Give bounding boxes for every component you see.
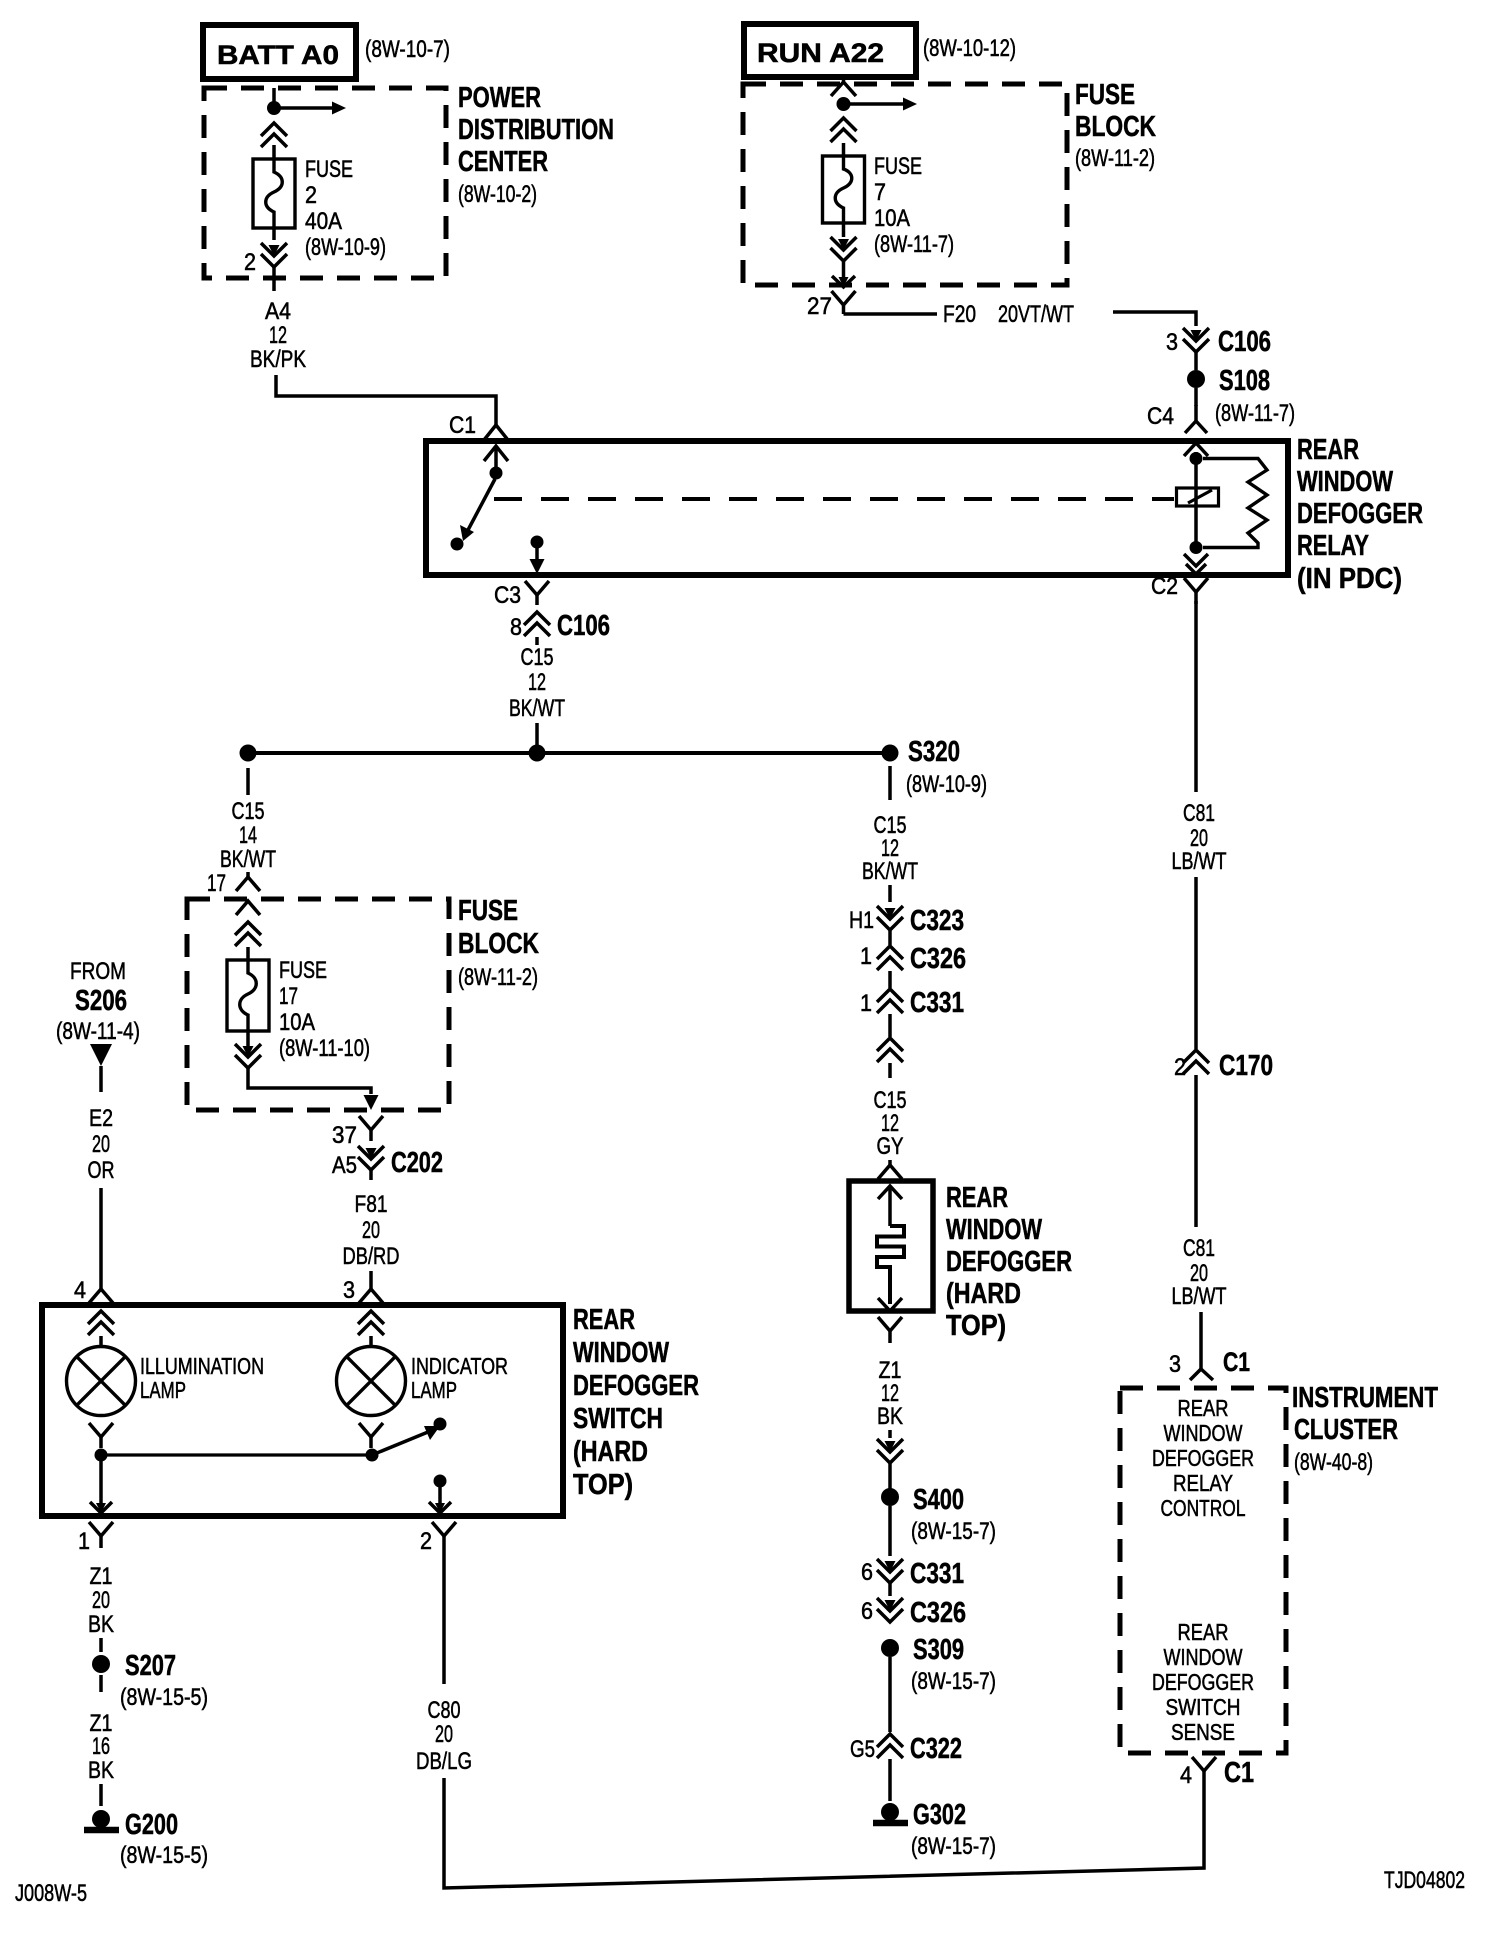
fuse 7 10A xyxy=(823,156,865,223)
svg-text:G302: G302 xyxy=(913,1799,966,1831)
fuse block dashed box (left) xyxy=(187,899,449,1110)
svg-text:2: 2 xyxy=(1174,1054,1186,1081)
splice S108 xyxy=(1187,370,1205,388)
connector chevrons unlabeled (up) xyxy=(877,1038,903,1051)
svg-text:S400: S400 xyxy=(913,1484,964,1516)
svg-text:40A: 40A xyxy=(305,208,342,235)
svg-text:C326: C326 xyxy=(910,943,966,975)
svg-text:RUN A22: RUN A22 xyxy=(757,38,884,68)
svg-text:ILLUMINATION: ILLUMINATION xyxy=(140,1353,264,1379)
svg-text:3: 3 xyxy=(1166,329,1178,356)
svg-text:FUSE: FUSE xyxy=(458,895,518,927)
connector arrow at defogger bottom xyxy=(878,1298,902,1311)
instrument cluster dashed box xyxy=(1120,1388,1286,1753)
wire pin 1 to border xyxy=(99,1461,103,1509)
svg-text:S108: S108 xyxy=(1219,365,1270,397)
svg-text:REAR: REAR xyxy=(1178,1619,1229,1645)
svg-text:C331: C331 xyxy=(910,987,964,1019)
wire C1 to switch common xyxy=(494,448,498,468)
node illumination lamp return dot xyxy=(95,1449,108,1462)
svg-text:DISTRIBUTION: DISTRIBUTION xyxy=(458,114,614,146)
svg-text:20VT/WT: 20VT/WT xyxy=(998,301,1074,328)
svg-text:LB/WT: LB/WT xyxy=(1172,1283,1227,1310)
resistor across relay coil xyxy=(1203,459,1267,548)
svg-text:(8W-10-2): (8W-10-2) xyxy=(458,181,537,208)
connector V arrow at fuse block border xyxy=(839,277,849,287)
wire C202 to F81 label xyxy=(369,1170,373,1180)
wire fuse 7 output xyxy=(842,223,846,237)
svg-text:(8W-11-7): (8W-11-7) xyxy=(874,231,954,258)
svg-text:6: 6 xyxy=(861,1559,873,1586)
connector C322 chevrons (up) xyxy=(877,1734,903,1747)
wire C2 to C81 label xyxy=(1194,601,1198,792)
svg-text:SENSE: SENSE xyxy=(1171,1719,1235,1745)
svg-text:7: 7 xyxy=(874,179,886,206)
svg-text:G200: G200 xyxy=(125,1809,178,1841)
node switch output upper dot xyxy=(434,1418,447,1431)
svg-text:(8W-15-7): (8W-15-7) xyxy=(911,1518,996,1545)
node relay switch common dot xyxy=(490,467,503,480)
connector half chevron pin 3 into switch xyxy=(369,1284,373,1289)
label REAR WINDOW DEFOGGER (HARD TOP) xyxy=(946,1182,1072,1342)
wire label C80 20 DB/LG xyxy=(416,1697,472,1775)
svg-text:TOP): TOP) xyxy=(946,1310,1006,1342)
wire arrow from S206 xyxy=(90,1044,112,1066)
svg-text:DEFOGGER: DEFOGGER xyxy=(1152,1445,1254,1471)
svg-text:RELAY: RELAY xyxy=(1297,530,1369,562)
svg-text:TJD04802: TJD04802 xyxy=(1384,1867,1465,1894)
ground G200 xyxy=(92,1810,110,1828)
label REAR WINDOW DEFOGGER RELAY (IN PDC) xyxy=(1297,434,1423,595)
svg-text:A4: A4 xyxy=(265,298,291,325)
node relay coil bottom dot xyxy=(1190,541,1203,554)
wire label C15 14 BK/WT xyxy=(220,798,276,873)
wire label Z1 12 BK xyxy=(877,1357,903,1430)
svg-text:C1: C1 xyxy=(1224,1757,1254,1789)
node relay output dot (C3) xyxy=(531,536,544,549)
wire S108 to relay C4 xyxy=(1194,388,1198,406)
svg-text:S320: S320 xyxy=(908,736,960,768)
label REAR WINDOW DEFOGGER RELAY CONTROL xyxy=(1152,1395,1254,1521)
label FUSE 7 10A (8W-11-7) xyxy=(874,153,954,258)
svg-text:C80: C80 xyxy=(428,1697,461,1724)
connector half chevron below fuse block (37) xyxy=(359,1116,371,1130)
heater REAR WINDOW DEFOGGER (HARD TOP) box xyxy=(849,1181,933,1311)
label FUSE 2 40A (8W-10-9) xyxy=(305,156,386,261)
wire bus arrow right xyxy=(844,102,904,106)
svg-text:(8W-40-8): (8W-40-8) xyxy=(1294,1449,1373,1476)
svg-text:(HARD: (HARD xyxy=(946,1278,1021,1310)
ground G302 xyxy=(881,1803,899,1821)
connector chevrons fuse block exit (down) xyxy=(838,239,849,250)
wire stub to S207 xyxy=(99,1638,103,1652)
svg-text:1: 1 xyxy=(860,990,872,1017)
wire to C15 GY label xyxy=(888,1063,892,1078)
label REAR WINDOW DEFOGGER SWITCH (HARD TOP) xyxy=(573,1304,699,1501)
svg-text:C4: C4 xyxy=(1147,403,1174,430)
svg-text:C81: C81 xyxy=(1183,800,1215,827)
svg-text:C202: C202 xyxy=(391,1147,443,1179)
connector chevrons pin 4 inside switch (up) xyxy=(88,1311,114,1324)
wire S400 down xyxy=(888,1506,892,1556)
svg-text:DB/RD: DB/RD xyxy=(343,1243,400,1270)
svg-text:BK: BK xyxy=(88,1757,114,1784)
svg-text:LB/WT: LB/WT xyxy=(1172,848,1227,875)
wire to fuse 7 xyxy=(842,143,846,156)
svg-text:3: 3 xyxy=(1169,1351,1181,1378)
connector C106 chevrons (down) xyxy=(1191,330,1202,341)
fuse block dashed box (top) xyxy=(743,84,1067,285)
connector chevrons pin 3 inside switch (up) xyxy=(358,1311,384,1324)
relay coil box xyxy=(1177,488,1219,506)
wire label C81 20 LB/WT (upper) xyxy=(1172,800,1227,875)
svg-text:C3: C3 xyxy=(494,582,521,609)
defogger grid element meander xyxy=(877,1226,904,1304)
node switch pole dot xyxy=(366,1449,379,1462)
svg-text:C323: C323 xyxy=(910,905,964,937)
wire C80 upper xyxy=(442,1548,446,1684)
node bus dot in PDC xyxy=(267,101,281,115)
wire label C81 20 LB/WT (lower) xyxy=(1172,1235,1227,1310)
connector C202 chevrons (down) xyxy=(366,1148,377,1159)
svg-text:CLUSTER: CLUSTER xyxy=(1294,1414,1398,1446)
splice S309 xyxy=(881,1639,899,1657)
svg-text:INDICATOR: INDICATOR xyxy=(411,1353,508,1379)
node splice dot left xyxy=(240,745,257,762)
svg-text:(8W-11-10): (8W-11-10) xyxy=(279,1035,370,1062)
svg-text:WINDOW: WINDOW xyxy=(1164,1644,1243,1670)
label POWER DISTRIBUTION CENTER (8W-10-2) xyxy=(458,82,614,208)
svg-text:(8W-10-9): (8W-10-9) xyxy=(305,234,386,261)
svg-text:J008W-5: J008W-5 xyxy=(15,1880,87,1907)
connector half chevron into fuse block 2 xyxy=(246,872,250,877)
wire label C15 12 BK/WT (from relay) xyxy=(509,644,565,722)
wire C331 down xyxy=(888,1014,892,1037)
node RUN A22 feed box xyxy=(744,24,916,77)
connector half chevron C1 into relay xyxy=(494,421,498,425)
svg-text:(8W-15-7): (8W-15-7) xyxy=(911,1833,996,1860)
wire relay output arrow to C3 xyxy=(535,546,539,560)
node FROM S206 reference xyxy=(56,958,140,1045)
svg-text:CONTROL: CONTROL xyxy=(1161,1495,1246,1521)
label FUSE BLOCK (8W-11-2) left xyxy=(458,895,539,991)
wire C106 to label C15 xyxy=(535,637,539,645)
node relay coil top dot xyxy=(1190,452,1203,465)
connector C106 chevrons (up) on C15 wire xyxy=(524,612,550,625)
label REAR WINDOW DEFOGGER SWITCH SENSE xyxy=(1152,1619,1254,1745)
wire F20 horizontal segment 1 xyxy=(844,312,938,316)
svg-text:DEFOGGER: DEFOGGER xyxy=(573,1370,699,1402)
svg-text:Z1: Z1 xyxy=(90,1563,113,1590)
svg-text:16: 16 xyxy=(92,1733,110,1760)
svg-text:TOP): TOP) xyxy=(573,1469,633,1501)
wire bus arrow right xyxy=(274,106,332,110)
wire F20 horizontal segment 2 xyxy=(1113,312,1196,326)
connector chevron inside relay at C1 xyxy=(484,446,508,461)
svg-text:C331: C331 xyxy=(910,1558,964,1590)
wire splice bus horizontal xyxy=(248,751,890,755)
wire stub below S207 xyxy=(99,1675,103,1692)
label FUSE BLOCK (8W-11-2) xyxy=(1075,79,1156,172)
svg-text:OR: OR xyxy=(88,1157,115,1184)
connector chevrons fuse 17 exit (down) xyxy=(243,1046,254,1057)
wire C80 lower and bottom run xyxy=(444,1778,1204,1888)
svg-text:S309: S309 xyxy=(913,1634,964,1666)
wire PDC exit stub xyxy=(272,266,276,291)
connector chevrons (up) to fuse 7 xyxy=(831,118,857,131)
connector half chevron pin 1 below switch xyxy=(89,1522,101,1536)
connector chevrons in PDC (up) xyxy=(261,123,287,136)
svg-text:FUSE: FUSE xyxy=(874,153,922,180)
svg-text:E2: E2 xyxy=(89,1105,113,1132)
svg-text:C322: C322 xyxy=(910,1733,962,1765)
wire label F81 20 DB/RD xyxy=(343,1191,400,1270)
wire F81 to switch pin 3 xyxy=(369,1271,373,1284)
wire S309 down xyxy=(888,1657,892,1732)
connector C170 chevrons (up) xyxy=(1183,1050,1209,1063)
svg-text:BK: BK xyxy=(877,1403,903,1430)
relay switch arm (movable contact) xyxy=(468,479,495,530)
wire to fuse 2 xyxy=(272,145,276,159)
svg-text:DB/LG: DB/LG xyxy=(416,1748,472,1775)
svg-text:FROM: FROM xyxy=(70,958,126,985)
svg-text:12: 12 xyxy=(528,669,546,696)
svg-text:(8W-10-12): (8W-10-12) xyxy=(923,35,1016,62)
svg-text:WINDOW: WINDOW xyxy=(573,1337,669,1369)
svg-text:CENTER: CENTER xyxy=(458,146,548,178)
fuse 2 40A xyxy=(253,159,295,228)
svg-text:2: 2 xyxy=(244,249,256,276)
wire to chevron xyxy=(888,1430,892,1438)
wire label A4 12 BK/PK xyxy=(250,298,306,373)
label INSTRUMENT CLUSTER (8W-40-8) xyxy=(1292,1382,1438,1476)
svg-text:S206: S206 xyxy=(75,985,127,1017)
svg-text:(8W-11-2): (8W-11-2) xyxy=(1075,145,1155,172)
svg-text:GY: GY xyxy=(877,1133,904,1160)
connector half chevron pin 2 below switch xyxy=(432,1522,444,1536)
svg-text:BK/PK: BK/PK xyxy=(250,346,306,373)
svg-text:17: 17 xyxy=(207,870,226,897)
connector half chevron C2 below relay xyxy=(1184,578,1196,592)
connector C331 chevrons (down) xyxy=(885,1561,896,1572)
switch arm to output xyxy=(372,1432,428,1455)
fuse 17 10A xyxy=(227,960,269,1031)
svg-text:(8W-15-7): (8W-15-7) xyxy=(911,1668,996,1695)
svg-text:BLOCK: BLOCK xyxy=(1075,111,1156,143)
svg-text:(8W-10-7): (8W-10-7) xyxy=(365,36,450,63)
wire into grid element xyxy=(888,1188,892,1226)
svg-text:SWITCH: SWITCH xyxy=(573,1403,663,1435)
wire BATT feed into PDC xyxy=(272,88,276,104)
wire pin 4 to illumination lamp xyxy=(99,1336,103,1347)
svg-text:C106: C106 xyxy=(557,610,610,642)
connector chevron at fuse block border xyxy=(236,901,260,915)
svg-text:F81: F81 xyxy=(355,1191,388,1218)
wire to fuse 17 xyxy=(246,947,250,960)
connector C323 chevrons (down) xyxy=(885,908,896,919)
lamp illumination xyxy=(67,1347,136,1416)
svg-text:20: 20 xyxy=(92,1131,110,1158)
svg-text:C15: C15 xyxy=(232,798,265,825)
svg-text:A5: A5 xyxy=(332,1152,357,1179)
svg-text:REAR: REAR xyxy=(1297,434,1359,466)
svg-text:(IN PDC): (IN PDC) xyxy=(1297,563,1402,595)
wire to S400 xyxy=(888,1463,892,1489)
relay REAR WINDOW DEFOGGER RELAY (IN PDC) box xyxy=(426,441,1288,575)
svg-text:17: 17 xyxy=(279,983,298,1010)
wire to S108 xyxy=(1194,352,1198,370)
svg-text:20: 20 xyxy=(435,1721,453,1748)
wire A4 run to relay C1 xyxy=(276,375,496,421)
svg-text:37: 37 xyxy=(332,1122,357,1149)
wire C15 down to splice bus xyxy=(535,723,539,753)
connector chevron inside defogger (up) xyxy=(878,1186,902,1199)
connector half chevron below illumination lamp xyxy=(89,1423,101,1437)
wire label E2 20 OR xyxy=(88,1105,115,1184)
wire label C15 12 GY xyxy=(874,1087,907,1160)
wire lamp return bus xyxy=(101,1453,372,1456)
svg-text:10A: 10A xyxy=(874,205,910,232)
svg-text:S207: S207 xyxy=(125,1650,176,1682)
svg-text:(8W-11-2): (8W-11-2) xyxy=(458,964,538,991)
node splice dot middle xyxy=(529,745,546,762)
svg-text:DEFOGGER: DEFOGGER xyxy=(946,1246,1072,1278)
wire C326-C331 xyxy=(888,971,892,988)
connector C331 chevrons (up) xyxy=(877,989,903,1002)
svg-text:DEFOGGER: DEFOGGER xyxy=(1297,498,1423,530)
wire switch output to pin 2 xyxy=(438,1487,442,1509)
wire coil vertical xyxy=(1194,452,1198,548)
connector half chevron C3 below relay xyxy=(525,581,537,595)
svg-text:BK/WT: BK/WT xyxy=(862,858,918,885)
lamp indicator xyxy=(337,1347,406,1416)
connector C326 chevrons (up) xyxy=(877,946,903,959)
svg-text:4: 4 xyxy=(1180,1762,1192,1789)
splice S207 xyxy=(92,1655,110,1673)
svg-text:2: 2 xyxy=(305,182,317,209)
connector half chevron below indicator lamp xyxy=(359,1423,371,1437)
connector C1 into cluster (half chevron) xyxy=(1199,1312,1203,1369)
wire to G302 xyxy=(888,1759,892,1801)
splice S320 dot xyxy=(882,745,899,762)
svg-text:REAR: REAR xyxy=(946,1182,1008,1214)
svg-text:C1: C1 xyxy=(1223,1347,1250,1377)
svg-text:27: 27 xyxy=(807,293,832,320)
svg-text:C81: C81 xyxy=(1183,1235,1215,1262)
connector half chevron C1 below cluster xyxy=(1192,1757,1204,1771)
wire stub below S320 xyxy=(888,766,892,800)
wire label Z1 16 BK xyxy=(88,1710,114,1784)
svg-text:(8W-15-5): (8W-15-5) xyxy=(120,1684,208,1711)
svg-text:BLOCK: BLOCK xyxy=(458,928,539,960)
connector chevrons inside fuse block (up) xyxy=(235,922,261,935)
wire stub to G200 xyxy=(99,1784,103,1806)
connector half chevron into defogger grid xyxy=(888,1160,892,1165)
svg-text:SWITCH: SWITCH xyxy=(1166,1694,1241,1720)
connector half chevron C4 into relay xyxy=(1194,405,1198,421)
svg-text:WINDOW: WINDOW xyxy=(1164,1420,1243,1446)
node relay switch throw dot xyxy=(451,538,464,551)
wire to C323 xyxy=(888,885,892,902)
svg-text:20: 20 xyxy=(362,1217,380,1244)
svg-text:C1: C1 xyxy=(449,412,476,439)
svg-text:POWER: POWER xyxy=(458,82,541,114)
svg-text:14: 14 xyxy=(239,822,257,849)
connector half chevron pin 4 into switch xyxy=(99,1284,103,1289)
svg-text:WINDOW: WINDOW xyxy=(1297,466,1393,498)
wire fuse 2 output xyxy=(272,228,276,240)
relay control dashed line xyxy=(494,497,1174,501)
svg-text:LAMP: LAMP xyxy=(140,1377,186,1403)
svg-text:C2: C2 xyxy=(1151,573,1178,600)
svg-text:6: 6 xyxy=(861,1598,873,1625)
svg-text:C106: C106 xyxy=(1218,326,1271,358)
svg-text:FUSE: FUSE xyxy=(305,156,353,183)
svg-text:LAMP: LAMP xyxy=(411,1377,457,1403)
svg-text:(HARD: (HARD xyxy=(573,1436,648,1468)
connector chevrons PDC exit (down) xyxy=(269,245,280,256)
connector half chevron below defogger grid xyxy=(878,1317,890,1331)
connector chevron inside relay at C4 xyxy=(1184,443,1208,456)
svg-text:REAR: REAR xyxy=(1178,1395,1229,1421)
svg-text:BATT A0: BATT A0 xyxy=(217,40,339,70)
wire fuse 17 to exit chevrons xyxy=(246,1031,250,1046)
svg-text:1: 1 xyxy=(78,1528,90,1555)
wire pin 3 to indicator lamp xyxy=(369,1336,373,1347)
svg-text:RELAY: RELAY xyxy=(1173,1470,1233,1496)
wire label Z1 20 BK xyxy=(88,1563,114,1638)
svg-text:DEFOGGER: DEFOGGER xyxy=(1152,1669,1254,1695)
node bus dot in fuse block xyxy=(837,97,851,111)
svg-text:(8W-11-4): (8W-11-4) xyxy=(56,1018,140,1045)
svg-text:8: 8 xyxy=(510,614,522,641)
svg-text:FUSE: FUSE xyxy=(279,957,327,984)
svg-text:2: 2 xyxy=(420,1528,432,1555)
svg-text:REAR: REAR xyxy=(573,1304,635,1336)
connector chevrons inside relay at C2 (down) xyxy=(1184,554,1208,566)
wire C81 to C170 xyxy=(1194,877,1198,1049)
svg-text:20: 20 xyxy=(92,1587,110,1614)
svg-text:BK: BK xyxy=(88,1611,114,1638)
svg-text:F20: F20 xyxy=(943,301,976,328)
svg-text:1: 1 xyxy=(860,943,872,970)
svg-text:10A: 10A xyxy=(279,1009,315,1036)
svg-text:C15: C15 xyxy=(521,644,554,671)
node switch output lower dot xyxy=(434,1475,447,1488)
node BATT A0 feed box xyxy=(203,25,356,79)
connector half chevron below fuse block xyxy=(832,291,844,305)
wire C331-C326 lower xyxy=(888,1583,892,1596)
wire E2 to switch pin 4 xyxy=(99,1188,103,1284)
svg-text:C170: C170 xyxy=(1219,1050,1273,1082)
svg-text:BK/WT: BK/WT xyxy=(220,846,276,873)
wire stub below left splice dot xyxy=(246,768,250,795)
svg-text:12: 12 xyxy=(269,322,287,349)
svg-text:4: 4 xyxy=(74,1277,86,1304)
wire fuse 17 output dogleg xyxy=(248,1068,371,1094)
svg-text:H1: H1 xyxy=(849,907,874,934)
svg-text:BK/WT: BK/WT xyxy=(509,695,565,722)
connector chevrons (down) on Z1 xyxy=(885,1441,896,1452)
label FUSE 17 10A (8W-11-10) xyxy=(279,957,370,1062)
power distribution center dashed box xyxy=(204,88,446,278)
connector half chevron at fuse block top xyxy=(842,76,846,83)
svg-text:C326: C326 xyxy=(910,1597,966,1629)
svg-text:G5: G5 xyxy=(850,1736,875,1763)
svg-text:FUSE: FUSE xyxy=(1075,79,1135,111)
wire label C15 12 BK/WT (S320 branch) xyxy=(862,812,918,885)
switch REAR WINDOW DEFOGGER SWITCH (HARD TOP) box xyxy=(42,1305,563,1516)
